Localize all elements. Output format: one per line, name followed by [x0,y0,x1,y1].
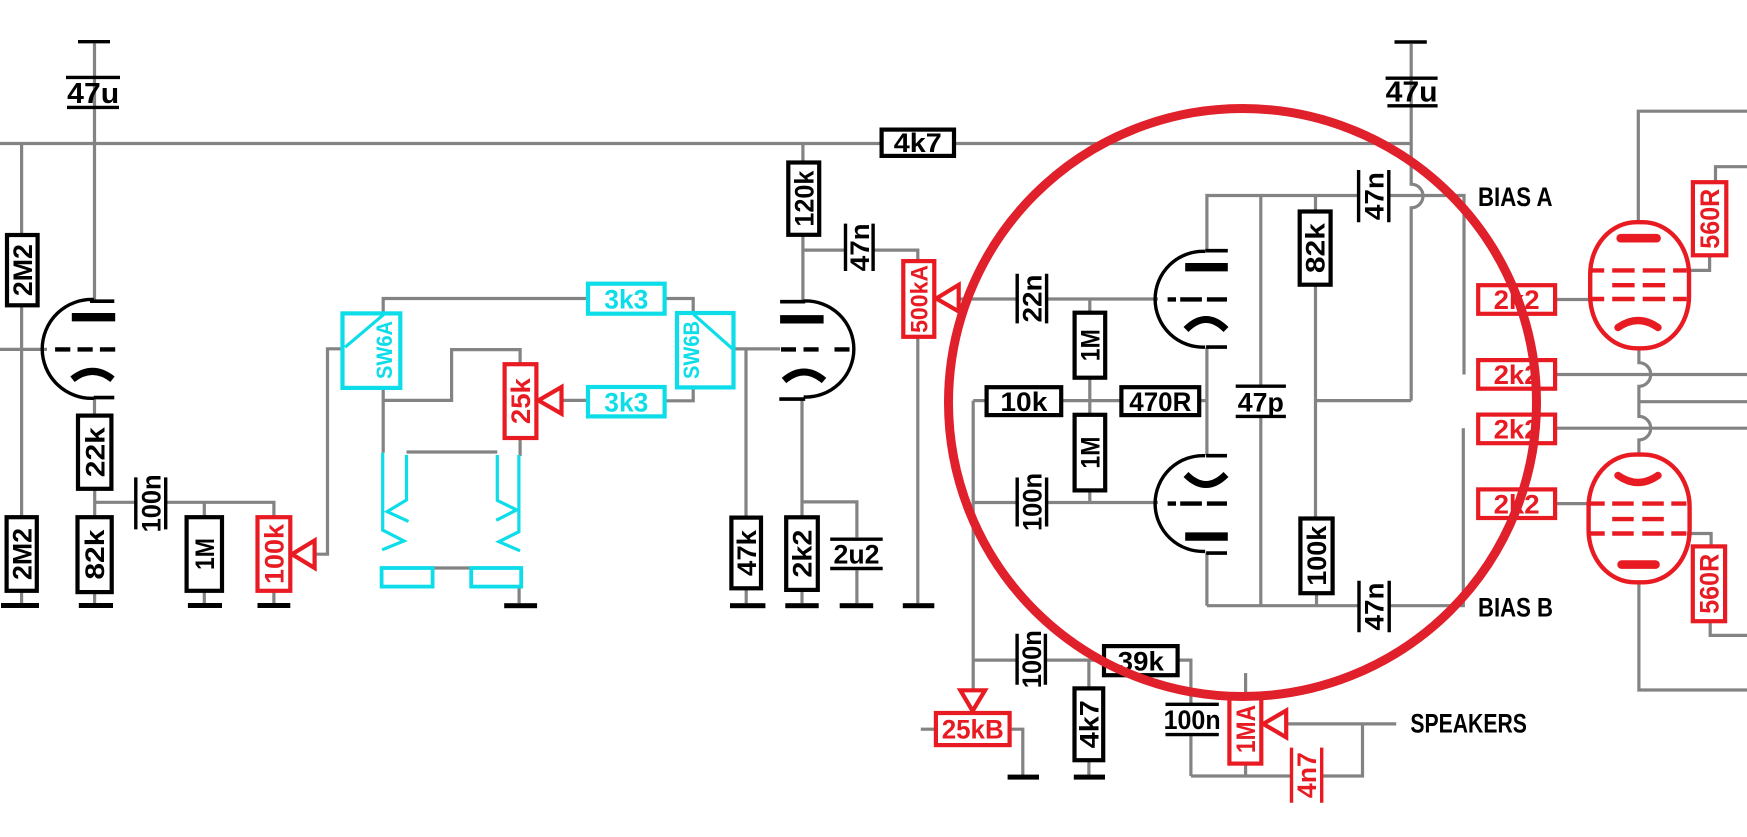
resistor 470R [1121,387,1199,415]
wire bias A row to right edge [1555,373,1747,376]
svg-text:3k3: 3k3 [604,387,648,417]
ground under 4k7 [1074,775,1105,780]
ground under 100k pot [258,603,291,608]
pentode O1 g3 dashes [1591,268,1687,272]
wire 1MA top stub [1244,673,1247,694]
capacitor 100n nfb plates [1017,634,1045,685]
rotary switch contact line D [499,455,520,551]
svg-text:470R: 470R [1129,387,1191,417]
wire 25kB right to ground [1010,729,1023,775]
svg-text:22n: 22n [1018,275,1048,323]
wire 82k bottom to ground [93,592,96,603]
wire 3k3 to 25k wiper [562,399,589,402]
ground under 25kB [1008,775,1039,780]
wire V3b anode down [1205,553,1208,606]
triode V3b envelope [1155,456,1205,552]
resistor 4k7 top [882,130,954,156]
resistor 2k2 grid stopper B1 [1478,415,1555,444]
potentiometer 1MA box [1229,694,1261,763]
wire switch wafer link [433,566,472,569]
rotary switch wafer right [471,568,521,587]
potentiometer 500kA box [903,261,934,337]
red circle [949,109,1537,697]
capacitor 47n bias A plates [1359,170,1389,222]
svg-text:1M: 1M [1076,437,1106,469]
wire cathode node to 2u2 [802,502,857,537]
resistor 2M2 lower [7,517,37,591]
wire node to 10k left [973,399,986,402]
svg-text:4n7: 4n7 [1292,752,1322,798]
svg-text:100n: 100n [1017,630,1047,688]
wire V3b anode node to 47n bias B [1207,604,1359,607]
wire 2k2 bottom to ground [800,590,803,603]
wire 25kB left stub [921,728,936,731]
potentiometer 25kB wiper arrow [960,690,985,711]
wire speaker return bottom run [1191,774,1292,777]
triode V3a cathode [1186,320,1226,330]
wire 2k2 to O1 grid [1555,298,1591,301]
svg-text:100k: 100k [260,523,290,584]
capacitor 100n phase inverter plates [1017,478,1046,527]
wire SW6B bottom to 3k3 [665,387,694,400]
triode V1 envelope [42,299,94,398]
capacitor 47p plates [1236,386,1286,416]
resistor 47k [731,518,761,589]
wire O1 anode up to right edge [1638,111,1747,222]
triode V3b grid dashes [1168,501,1227,505]
triode V3b cathode [1186,475,1226,485]
rotary switch contact line A [382,453,404,550]
potentiometer 100k box [258,517,291,591]
wire HT to 82k/100k node [1316,399,1412,402]
wire SW6A top to 3k3 [383,299,588,314]
wire 2u2 bottom to ground [855,570,858,603]
svg-text:1M: 1M [1076,329,1106,361]
resistor 560R upper [1693,182,1726,255]
potentiometer 25k wiper arrow [538,387,561,414]
pentode O2 anode plate [1622,560,1656,569]
triode V1 cathode terminal [94,396,115,400]
triode V1 cathode [73,371,113,379]
triode V3b anode terminal [1206,551,1227,555]
wire 120k bottom to V2 anode [801,235,804,302]
wire V3a cathode to V3b cathode [1205,348,1208,455]
svg-text:47n: 47n [1359,172,1389,220]
capacitor 4n7 plates [1292,748,1322,803]
wire 47n to BIAS B corner [1389,428,1463,606]
wire SW6A bottom to switch contact A [382,388,385,453]
switch SW6A box [343,313,401,388]
wire 100n to 4k7/39k node [1045,658,1104,661]
wire 4k7 top lead [1087,660,1090,688]
capacitor 2u2 plates [830,539,883,568]
wire bus to 120k top [801,144,804,163]
pentode O1 g1 dashes [1591,297,1687,301]
wire 1M junction vertical [1088,378,1091,415]
resistor 1M upper [1075,313,1106,378]
wire 100k pot bottom to ground [272,591,275,603]
wire 25k bottom to switch contact D [518,438,521,456]
svg-text:SW6A: SW6A [372,321,397,379]
svg-text:560R: 560R [1695,189,1725,249]
svg-text:10k: 10k [1000,387,1048,417]
wire 1M lower bottom lead [1088,490,1091,502]
resistor 1M lower [1075,415,1106,491]
wire switch wafer to ground [517,587,520,604]
svg-text:100k: 100k [1302,525,1332,586]
potentiometer 1MA wiper arrow [1263,711,1286,738]
capacitor 47n mid plates [846,224,874,271]
potentiometer 25kB box [936,713,1010,745]
wire O2 screen to 560R [1687,534,1711,547]
wire cathode row to right edge [1639,400,1747,403]
resistor 2k2 grid stopper B2 [1478,489,1555,518]
svg-text:47p: 47p [1238,388,1284,418]
wire NFB vertical from 10k down [972,401,975,691]
wire NFB node to 100n bottom [973,658,1017,661]
resistor 120k [788,163,819,235]
wire 100n to 1M and 100k top [166,502,274,517]
svg-text:4k7: 4k7 [1074,700,1104,748]
resistor 1M left [187,517,222,591]
wire switch contacts B-C link [407,450,498,453]
wire 470R right to cathodes [1199,399,1207,402]
svg-text:25kB: 25kB [942,715,1004,745]
svg-text:2M2: 2M2 [7,528,37,580]
resistor 560R lower [1693,546,1725,621]
capacitor C2 47u plates [1386,78,1438,106]
triode V2 anode plate [780,315,824,323]
ground under 2k2 [785,603,818,608]
ground under 82k [79,603,113,608]
potentiometer 500kA wiper arrow [936,285,959,312]
wire 3k3 to SW6B top [665,299,694,314]
wire lower net to 100n [973,501,1017,504]
svg-text:1MA: 1MA [1231,705,1261,753]
svg-text:47u: 47u [67,78,119,110]
svg-text:SW6B: SW6B [679,321,704,379]
pentode O1 anode plate [1621,234,1657,243]
triode V3a cathode terminal [1206,345,1227,349]
wire 1MA bottom lead [1244,764,1247,776]
capacitor C2 47u top terminal [1395,40,1427,43]
wire grid node to 47k [744,349,747,517]
svg-text:2u2: 2u2 [834,539,880,569]
svg-text:4k7: 4k7 [894,128,942,158]
wire 4k7 bottom to ground [1087,760,1090,775]
ground under 1M [188,603,222,608]
svg-text:47n: 47n [1360,583,1390,631]
svg-text:100n: 100n [1164,705,1221,735]
resistor 100k phase inverter [1300,519,1332,594]
wire 82k bottom to 100k top [1314,285,1317,519]
resistor 2k2 mid [786,517,818,590]
wire 22k bottom to 82k top [93,489,96,517]
potentiometer 25k box [505,364,537,438]
triode V2 cathode terminal [779,397,805,401]
resistor 3k3 upper [588,284,665,314]
triode V3a envelope [1155,251,1205,347]
svg-text:BIAS A: BIAS A [1478,182,1553,212]
pentode O1 cathode [1618,321,1658,328]
wire node to 1M upper top [1088,299,1091,313]
switch SW6A contact diagonal [345,314,384,347]
capacitor C1 47u top terminal [78,40,110,43]
wire V3a anode node to 47n bias A [1207,196,1359,252]
resistor 2M2 upper [7,235,38,305]
svg-text:47u: 47u [1386,77,1438,109]
wire 100n bottom to speaker return [1189,735,1192,776]
triode V3a anode plate [1185,263,1228,271]
wire 10k right to 470R left [1061,399,1121,402]
triode V3a grid dashes [1168,297,1227,301]
wire 500kA wiper to 22n [959,297,1018,300]
svg-text:100n: 100n [137,474,167,532]
wire 47p top vertical [1259,196,1262,387]
wire 47p bottom vertical [1259,416,1262,605]
svg-text:47n: 47n [845,223,875,271]
wire 500kA bottom to ground [916,337,919,603]
pentode O2 g3 dashes [1590,531,1687,535]
svg-text:25k: 25k [506,377,536,424]
rotary switch contact line B [387,455,408,521]
wire 100k bottom lead [1315,593,1318,606]
triode V2 anode terminal [780,300,805,304]
resistor 4k7 bottom [1075,688,1104,760]
wire 82k top lead [1314,196,1317,212]
pentode O2 envelope [1589,455,1690,583]
triode V3b anode plate [1185,532,1228,540]
resistor 82k left [78,517,112,592]
capacitor 22n plates [1017,274,1046,324]
wire 2k2 to O2 grid [1555,502,1590,505]
pentode O2 g2 dashes [1612,517,1664,521]
wire SW6A bottom branch to 25k top [383,350,520,401]
wire 560R bottom to right edge [1710,621,1747,635]
wire SW6B out to V2 grid [734,347,781,350]
svg-text:82k: 82k [1301,222,1331,273]
capacitor 100n speaker plates [1166,704,1219,734]
wire 39k right down through 100n [1178,660,1191,704]
svg-text:22k: 22k [80,426,110,477]
svg-text:3k3: 3k3 [604,284,648,314]
wire node 22k/82k to 100n [95,501,136,504]
ground under 2u2 [840,603,874,608]
wire 2M2 divider chain vertical [20,144,23,604]
wire 1M bottom to ground [203,591,206,603]
resistor 22k [78,416,111,489]
wire 4n7 to corner up [1322,724,1363,776]
resistor 3k3 lower [588,387,665,416]
wire anode node to 47n [803,249,846,252]
potentiometer 100k wiper arrow [292,541,315,569]
wire V1 cathode to 22k [93,398,96,416]
capacitor 47n bias B plates [1359,581,1389,633]
svg-text:100n: 100n [1018,473,1048,531]
ground under 47k [730,603,765,608]
wire 47k bottom to ground [745,588,748,603]
wire O2 anode to right edge [1639,582,1747,690]
triode V1 anode terminal [90,299,114,303]
pentode O2 cathode [1618,476,1658,483]
switch SW6B contact diagonal [694,314,733,349]
triode V3a anode terminal [1205,249,1228,253]
svg-text:47k: 47k [732,529,762,576]
wire V2 cathode to 2k2 [800,400,803,517]
svg-text:BIAS B: BIAS B [1478,593,1553,623]
rotary switch wafer left [382,568,433,587]
triode V1 grid dashes [55,347,115,351]
rotary switch contact line C [496,455,516,520]
wire 1M top lead [203,502,206,517]
wire 1MA wiper to SPEAKERS [1286,722,1396,725]
ground under 500kA [903,603,935,608]
wire O1 cathode to O2 cathode with hops [1639,348,1651,454]
wire 560R top to right edge [1716,167,1747,183]
capacitor C1 47u plates [66,77,120,107]
triode V2 grid dashes [781,347,850,351]
triode V3b cathode terminal [1206,454,1227,458]
wire 47n to BIAS A corner [1389,196,1464,375]
svg-text:560R: 560R [1695,554,1725,614]
wire 100n to V3b grid [1047,501,1158,504]
resistor 10k [987,387,1062,415]
wire HT bus right segment [954,142,1411,145]
wire HT bus left segment [0,142,882,145]
triode V2 cathode [784,372,824,381]
pentode O2 g1 dashes [1590,501,1687,505]
wire input to V1 grid [0,348,47,351]
capacitor 100n left plates [136,477,166,529]
svg-text:82k: 82k [80,529,110,580]
pentode O1 g2 dashes [1612,283,1665,287]
switch SW6B box [677,313,734,387]
triode V2 envelope [804,301,854,397]
resistor 39k [1104,646,1178,675]
svg-text:2M2: 2M2 [8,244,38,296]
svg-text:500kA: 500kA [906,265,933,333]
svg-text:120k: 120k [789,170,819,227]
wire 47u C1 to V1 anode vertical [93,44,96,302]
wire 22n to V3a grid [1047,297,1158,300]
resistor 82k phase inverter [1300,212,1331,285]
svg-text:SPEAKERS: SPEAKERS [1410,709,1527,739]
svg-text:1M: 1M [190,538,220,570]
wire 47u C2 vertical with hop [1411,44,1423,401]
wire O1 screen to 560R [1687,255,1710,270]
ground under switch wafer [504,603,537,608]
wire 47n to 500kA top [873,250,918,261]
wire 100k wiper to SW6A input [315,349,343,554]
wire bias B row to right edge [1555,427,1747,430]
ground under 2M2 [1,603,39,608]
svg-text:2k2: 2k2 [788,530,818,578]
resistor 2k2 grid stopper A1 [1478,285,1555,314]
triode V1 anode plate [72,313,115,321]
resistor 2k2 grid stopper A2 [1478,360,1555,389]
pentode O1 envelope [1590,222,1689,348]
